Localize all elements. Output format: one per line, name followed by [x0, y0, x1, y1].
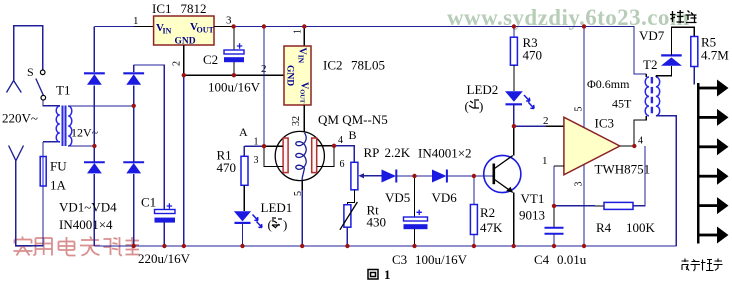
svg-text:0.01u: 0.01u [557, 252, 587, 267]
svg-text:78L05: 78L05 [351, 58, 385, 73]
svg-text:RP: RP [364, 145, 380, 160]
svg-text:IC1: IC1 [152, 1, 172, 16]
svg-text:): ) [283, 217, 287, 232]
svg-text:32: 32 [291, 116, 302, 126]
svg-text:C2: C2 [203, 52, 218, 67]
svg-text:GND: GND [285, 65, 295, 86]
svg-text:VD1~VD4: VD1~VD4 [59, 200, 117, 215]
svg-text:IC3: IC3 [595, 116, 615, 131]
svg-text:(: ( [465, 99, 469, 114]
svg-text:1: 1 [254, 137, 259, 148]
svg-text:QM QM--N5: QM QM--N5 [318, 112, 388, 127]
svg-text:TWH8751: TWH8751 [595, 162, 651, 177]
svg-text:C4: C4 [534, 252, 550, 267]
svg-text:LED1: LED1 [261, 200, 293, 215]
svg-text:6: 6 [340, 159, 345, 170]
svg-text:1: 1 [133, 15, 139, 27]
svg-text:1: 1 [293, 29, 304, 34]
svg-text:IN4001×4: IN4001×4 [59, 217, 113, 232]
svg-text:4: 4 [638, 136, 643, 147]
svg-text:IN: IN [163, 27, 172, 36]
svg-text:IC2: IC2 [323, 58, 343, 73]
svg-text:100u/16V: 100u/16V [208, 80, 261, 95]
svg-text:IN4001×2: IN4001×2 [418, 146, 472, 161]
svg-text:1: 1 [542, 155, 548, 167]
svg-text:430: 430 [367, 215, 387, 230]
svg-text:3: 3 [226, 15, 232, 27]
svg-text:FU: FU [50, 159, 67, 174]
svg-text:OUT: OUT [197, 26, 215, 35]
svg-text:1A: 1A [50, 178, 67, 193]
svg-text:VIN: VIN [297, 48, 308, 64]
svg-text:T2: T2 [643, 57, 657, 72]
svg-text:470: 470 [523, 48, 543, 63]
svg-text:Φ0.6mm: Φ0.6mm [587, 77, 630, 91]
svg-text:470: 470 [217, 160, 237, 175]
svg-text:R2: R2 [480, 205, 495, 220]
svg-text:VT1: VT1 [521, 191, 545, 206]
svg-text:4: 4 [338, 135, 343, 146]
svg-text:220V~: 220V~ [2, 111, 38, 126]
svg-text:(: ( [268, 217, 272, 232]
svg-text:100u/16V: 100u/16V [415, 252, 468, 267]
svg-text:2: 2 [172, 61, 183, 66]
svg-text:1: 1 [384, 267, 391, 281]
svg-text:T1: T1 [56, 83, 70, 98]
svg-text:7812: 7812 [181, 1, 207, 16]
svg-text:VD6: VD6 [432, 190, 458, 205]
svg-text:4.7M: 4.7M [701, 48, 729, 63]
svg-text:2.2K: 2.2K [385, 145, 411, 160]
svg-text:220u/16V: 220u/16V [138, 251, 191, 266]
svg-text:9013: 9013 [519, 208, 545, 223]
svg-text:C3: C3 [392, 252, 407, 267]
svg-text:2: 2 [543, 115, 549, 127]
svg-text:A: A [239, 125, 248, 139]
svg-text:VD7: VD7 [639, 28, 665, 43]
svg-text:R4: R4 [596, 220, 612, 235]
svg-text:GND: GND [175, 37, 196, 47]
svg-text:): ) [479, 99, 483, 114]
svg-text:3: 3 [574, 182, 585, 187]
svg-text:5: 5 [293, 191, 304, 196]
svg-text:47K: 47K [480, 220, 503, 235]
svg-text:LED2: LED2 [467, 82, 499, 97]
svg-text:VD5: VD5 [385, 190, 410, 205]
svg-text:B: B [349, 128, 357, 142]
svg-text:5: 5 [574, 107, 585, 112]
svg-text:100K: 100K [626, 220, 656, 235]
svg-text:3: 3 [254, 155, 259, 166]
svg-text:45T: 45T [612, 97, 632, 111]
svg-text:S: S [27, 65, 34, 79]
svg-text:C1: C1 [141, 195, 156, 210]
